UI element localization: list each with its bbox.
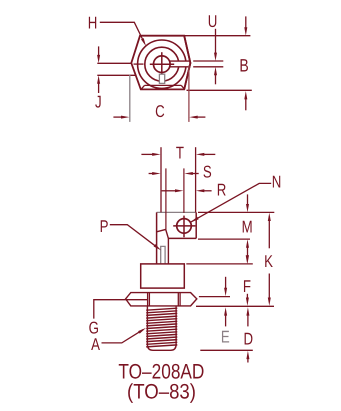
hex nut outline (top view) — [131, 36, 190, 90]
hole crosshair (side view) — [173, 225, 195, 227]
svg-text:S: S — [203, 162, 212, 181]
svg-text:U: U — [208, 12, 218, 31]
S extension line (notch) — [165, 168, 167, 229]
middle circle — [145, 47, 179, 81]
hole crosshair — [150, 63, 174, 65]
hex right vertex over lug — [184, 36, 190, 90]
body can — [141, 264, 185, 288]
dimension T arrows — [141, 153, 154, 155]
flange facet line right — [177, 293, 179, 306]
tab slot — [159, 74, 164, 83]
svg-text:M: M — [242, 217, 253, 236]
seating plane extension line — [196, 305, 274, 307]
dimension E arrows — [225, 277, 227, 290]
flange facet line left — [147, 293, 149, 306]
hex flange outline (side view) — [126, 293, 197, 306]
hex top extension line — [184, 35, 250, 37]
svg-text:B: B — [239, 56, 248, 76]
svg-text:H: H — [88, 13, 98, 32]
block top extension line — [198, 211, 274, 213]
terminal block (side view) — [157, 211, 197, 213]
svg-text:C: C — [155, 102, 165, 121]
dimension S arrows — [149, 173, 155, 175]
dimension B bottom arrow — [244, 91, 247, 99]
stud threads — [146, 308, 177, 347]
dimension K line — [268, 213, 271, 221]
sleeve notch — [166, 229, 169, 238]
C extension lines — [129, 75, 131, 122]
P leader — [110, 225, 158, 248]
svg-text:E: E — [221, 328, 230, 347]
svg-text:N: N — [272, 173, 282, 192]
lead wire in sleeve — [161, 246, 165, 264]
terminal hole circle — [154, 56, 171, 73]
bottom chamfer facet — [141, 85, 185, 89]
body top extension line — [186, 263, 253, 265]
dimension R arrows — [162, 190, 178, 192]
lug extension lines — [193, 60, 223, 62]
threaded stud outline — [147, 307, 176, 351]
terminal hole (side view) — [177, 219, 192, 234]
dimension M arrows — [247, 194, 249, 205]
dimension H leader — [100, 22, 144, 42]
T extension line left — [160, 147, 162, 212]
svg-text:T: T — [176, 143, 184, 162]
centerline segment — [134, 63, 144, 65]
block and sleeve left edge — [156, 212, 158, 264]
outer chamfer circle — [138, 40, 186, 88]
dimension B top arrow — [245, 16, 247, 29]
svg-text:J: J — [95, 93, 102, 112]
svg-text:D: D — [244, 330, 254, 349]
terminal lug strip (top view) — [162, 61, 190, 67]
svg-text:R: R — [217, 180, 227, 199]
dimension D arrows — [246, 307, 249, 315]
N leader — [191, 183, 272, 222]
hex bottom extension line — [187, 89, 252, 91]
dimension C arrows — [113, 116, 122, 118]
J reference lines — [97, 62, 131, 64]
svg-text:P: P — [100, 217, 109, 236]
block bottom extension line — [198, 238, 250, 240]
dimension F arrows — [246, 255, 249, 263]
flange tip extension line — [199, 296, 230, 298]
dimension U arrows — [215, 29, 217, 54]
svg-text:K: K — [264, 252, 273, 271]
svg-text:(TO–83): (TO–83) — [127, 381, 196, 404]
dimension J arrows — [98, 46, 100, 56]
hole center extension line — [183, 168, 185, 213]
sleeve right edge — [167, 238, 169, 264]
T extension line right — [195, 147, 197, 212]
svg-text:F: F — [243, 277, 251, 296]
A leader — [102, 330, 144, 343]
stud end extension line — [200, 349, 253, 351]
svg-text:A: A — [91, 335, 100, 354]
G leader — [94, 300, 147, 319]
